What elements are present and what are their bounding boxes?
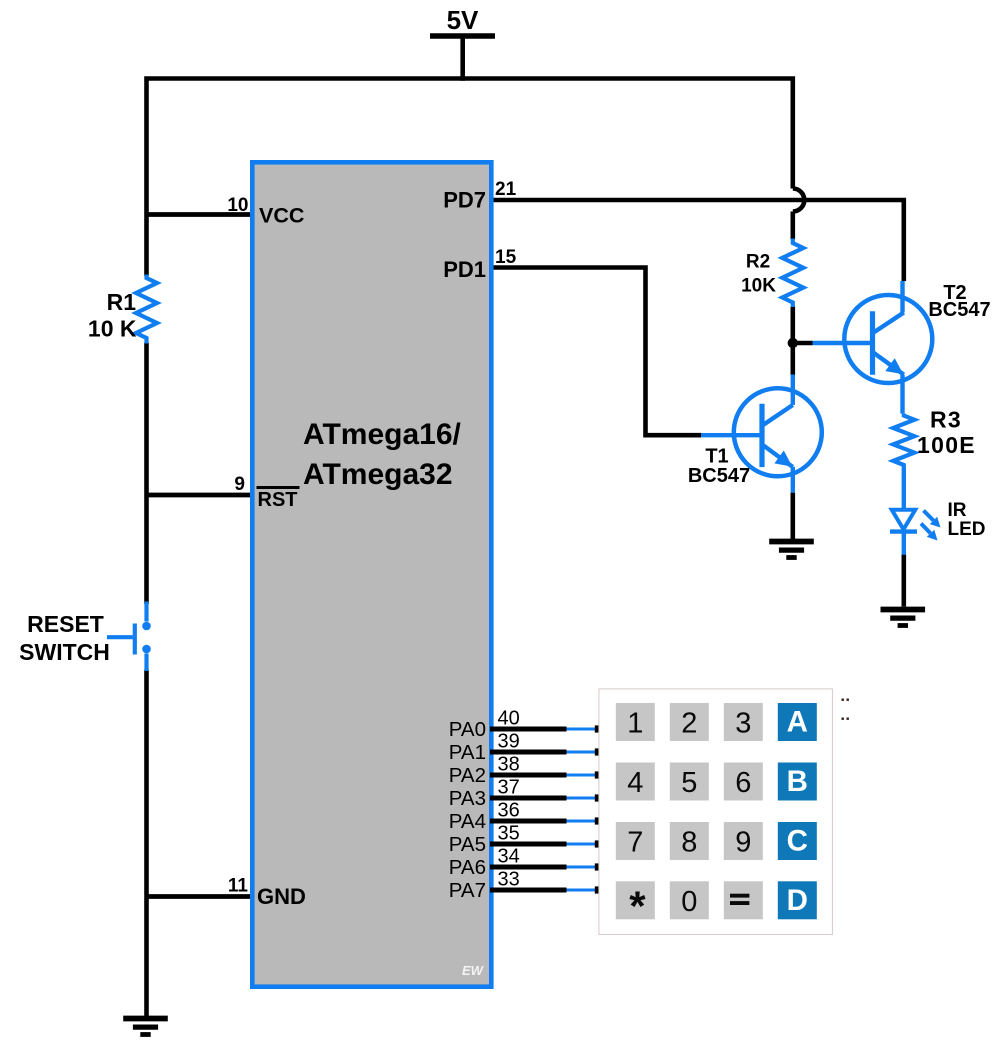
svg-text:1: 1 [627,708,643,740]
svg-text:PA4: PA4 [449,810,486,833]
svg-text:9: 9 [234,474,245,495]
svg-text:PD1: PD1 [443,257,486,282]
svg-text:SWITCH: SWITCH [19,639,110,665]
svg-text:38: 38 [498,754,520,776]
svg-text:8: 8 [681,827,697,859]
svg-text:21: 21 [495,179,517,200]
svg-text:100E: 100E [917,432,976,458]
svg-text:PA0: PA0 [449,718,486,741]
svg-text:34: 34 [498,846,520,868]
svg-text:BC547: BC547 [928,299,990,321]
svg-text:A: A [787,706,808,739]
svg-text:PD7: PD7 [443,187,486,212]
svg-text:R3: R3 [930,407,962,433]
svg-text:PA1: PA1 [449,741,486,764]
svg-text:R1: R1 [107,289,137,315]
svg-text:B: B [787,765,808,798]
svg-text:3: 3 [735,708,751,740]
svg-text:36: 36 [498,800,520,822]
svg-text:ATmega32: ATmega32 [303,458,453,491]
svg-text:PA2: PA2 [449,764,486,787]
svg-text:7: 7 [627,827,643,859]
svg-text:39: 39 [498,731,520,753]
svg-text:RST: RST [258,489,298,511]
svg-text:10K: 10K [741,276,776,297]
svg-text:PA3: PA3 [449,787,486,810]
svg-text:10: 10 [227,195,248,216]
svg-text:IR: IR [948,500,967,521]
svg-text:33: 33 [498,869,520,891]
svg-text:BC547: BC547 [688,465,750,487]
svg-text:37: 37 [498,777,520,799]
svg-text:5V: 5V [447,5,479,35]
svg-text:9: 9 [735,827,751,859]
svg-text:EW: EW [462,963,485,978]
svg-text:15: 15 [495,247,517,268]
svg-text:RESET: RESET [27,611,104,637]
svg-text:C: C [787,825,808,858]
svg-text:2: 2 [681,708,697,740]
svg-text:4: 4 [627,767,643,799]
svg-text:R2: R2 [746,252,770,273]
svg-text:6: 6 [735,767,751,799]
svg-text:ATmega16/: ATmega16/ [303,418,462,451]
svg-text:GND: GND [257,884,306,909]
svg-text:11: 11 [228,876,249,897]
svg-text:VCC: VCC [259,204,304,228]
svg-text:D: D [787,884,808,917]
svg-text:0: 0 [681,886,697,918]
svg-text:PA7: PA7 [449,879,486,902]
svg-text:PA5: PA5 [449,833,486,856]
svg-text:10 K: 10 K [88,316,137,342]
svg-text:LED: LED [948,519,986,540]
svg-text:*: * [629,883,646,930]
svg-text:5: 5 [681,767,697,799]
svg-text:40: 40 [498,708,520,730]
svg-text:PA6: PA6 [449,856,486,879]
svg-text:35: 35 [498,823,520,845]
